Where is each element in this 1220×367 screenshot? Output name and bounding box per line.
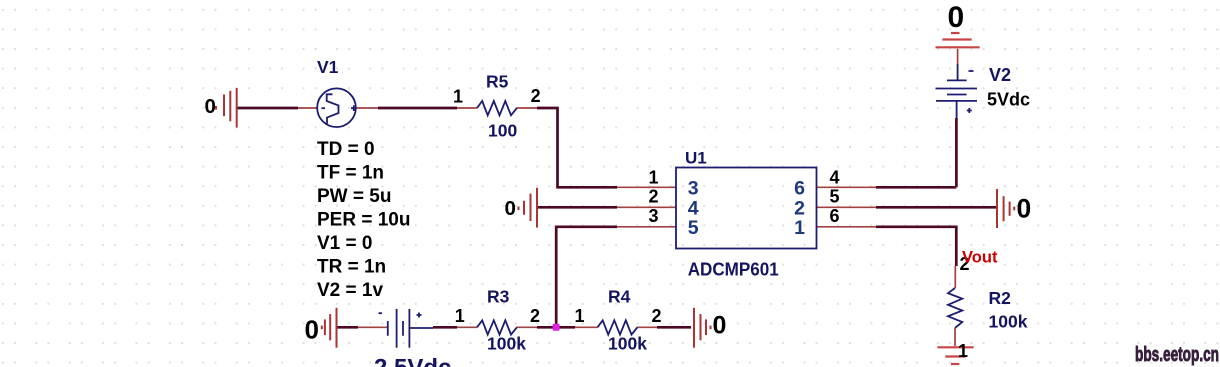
svg-text:1: 1 — [455, 306, 465, 326]
svg-text:0: 0 — [1017, 194, 1032, 224]
svg-text:2: 2 — [531, 86, 541, 106]
svg-text:0: 0 — [948, 1, 965, 34]
svg-text:5: 5 — [688, 217, 699, 239]
svg-text:2.5Vdc: 2.5Vdc — [374, 355, 451, 367]
svg-text:R5: R5 — [486, 72, 509, 92]
svg-text:100: 100 — [488, 121, 517, 141]
svg-text:1: 1 — [958, 341, 968, 361]
svg-text:TR = 1n: TR = 1n — [317, 257, 386, 278]
svg-text:2: 2 — [652, 306, 662, 326]
svg-text:3: 3 — [648, 206, 658, 226]
svg-text:PW = 5u: PW = 5u — [317, 186, 391, 207]
svg-text:2: 2 — [648, 187, 658, 207]
svg-text:1: 1 — [575, 306, 585, 326]
svg-text:5: 5 — [830, 187, 840, 207]
svg-text:TF = 1n: TF = 1n — [317, 163, 384, 184]
svg-text:R4: R4 — [608, 287, 631, 307]
svg-text:TD = 0: TD = 0 — [317, 139, 375, 160]
svg-text:V2: V2 — [989, 65, 1011, 85]
svg-text:0: 0 — [505, 197, 516, 220]
svg-text:1: 1 — [648, 168, 658, 188]
svg-text:0: 0 — [205, 95, 216, 118]
svg-text:PER = 10u: PER = 10u — [317, 210, 410, 231]
svg-text:Vout: Vout — [962, 249, 998, 267]
svg-text:2: 2 — [530, 306, 540, 326]
svg-text:100k: 100k — [989, 312, 1028, 332]
svg-text:ADCMP601: ADCMP601 — [688, 259, 779, 279]
svg-text:0: 0 — [713, 312, 727, 340]
svg-text:U1: U1 — [685, 149, 707, 168]
svg-text:0: 0 — [305, 315, 319, 345]
svg-text:R3: R3 — [487, 287, 510, 307]
svg-text:R2: R2 — [989, 288, 1012, 308]
svg-text:100k: 100k — [608, 334, 647, 354]
svg-text:5Vdc: 5Vdc — [987, 90, 1030, 110]
svg-text:1: 1 — [794, 217, 805, 239]
svg-text:100k: 100k — [487, 334, 526, 354]
svg-text:V2 = 1v: V2 = 1v — [317, 280, 383, 301]
svg-text:4: 4 — [830, 168, 840, 188]
svg-text:3: 3 — [688, 178, 699, 200]
svg-text:V1: V1 — [317, 57, 339, 77]
svg-text:bbs.eetop.cn: bbs.eetop.cn — [1135, 344, 1219, 366]
svg-text:1: 1 — [453, 87, 463, 107]
svg-text:6: 6 — [794, 178, 805, 200]
svg-text:V1 = 0: V1 = 0 — [317, 233, 372, 254]
svg-text:6: 6 — [830, 206, 840, 226]
